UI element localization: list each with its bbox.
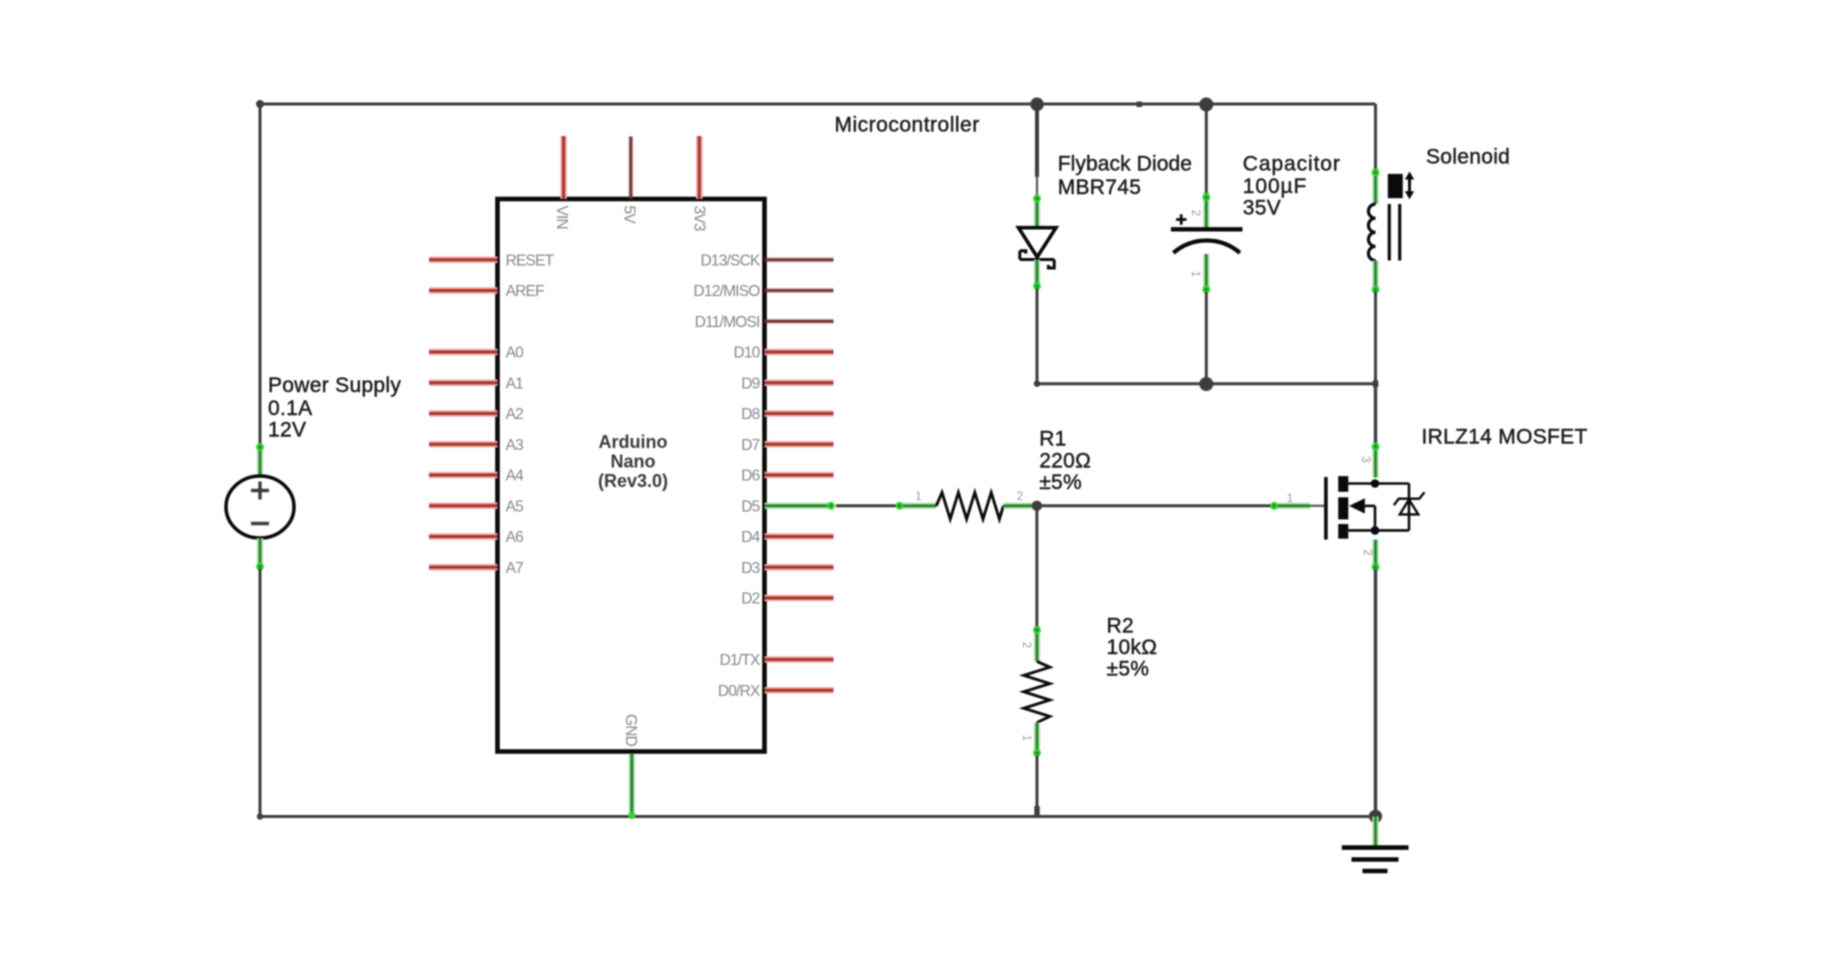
arduino pin A4 label [506, 468, 525, 485]
node junction flyback diode branch on top rail [1030, 98, 1044, 112]
wire bottom rail from power supply to ground junction [260, 815, 1376, 818]
node junction capacitor branch on top rail [1199, 98, 1213, 112]
arduino pin A6 label [506, 529, 524, 546]
capacitor C1 plus sign [1176, 214, 1187, 224]
arduino pin AREF (red leg) [429, 287, 498, 294]
wire from R1 junction down to R2 [1035, 506, 1038, 627]
node Q1 drain dot [1371, 479, 1380, 488]
arduino pin D8 label [741, 406, 759, 423]
arduino pin 3V3 label [691, 206, 708, 231]
transistor Q1 label [1422, 425, 1588, 448]
wire from R2 to bottom rail [1036, 756, 1039, 817]
node bendpoint on top rail [1137, 102, 1143, 108]
transistor Q1 gate bar [1324, 477, 1328, 540]
node junction capacitor at sub rail [1199, 377, 1213, 391]
flyback diode D1 label [1058, 152, 1192, 199]
arduino pin 5V (dark red leg) [628, 137, 633, 200]
microcontroller net label [835, 114, 980, 137]
svg-text:A7: A7 [506, 560, 524, 577]
diode D1 triangle [1019, 228, 1057, 257]
svg-text:0.1A: 0.1A [268, 397, 312, 420]
resistor R1 pin 1 (green) [896, 502, 937, 510]
svg-text:±5%: ±5% [1107, 658, 1150, 681]
svg-text:GND: GND [622, 714, 639, 747]
arduino pin D0/RX (leg) [765, 687, 834, 694]
arduino pin D6 (leg) [765, 472, 834, 479]
solenoid L1 core lines [1389, 204, 1399, 261]
resistor R2 pin 1 number [1020, 735, 1032, 741]
arduino pin D13/SCK label [700, 253, 760, 270]
capacitor C1 curved bottom plate [1173, 241, 1240, 253]
solenoid L1 pin 1 (green) [1372, 169, 1380, 205]
node bottom-left corner bendpoint [257, 813, 263, 819]
svg-text:2: 2 [1189, 210, 1201, 216]
svg-text:VIN: VIN [553, 206, 570, 229]
arduino pin RESET label [506, 253, 555, 270]
power supply label [268, 374, 401, 442]
transistor Q1 gate pin 1 (green) [1270, 502, 1310, 510]
node junction GND pin at bottom rail [628, 812, 635, 819]
svg-text:2: 2 [1361, 549, 1373, 555]
arduino pin VIN label [553, 206, 570, 229]
arduino pin D13/SCK (leg) [765, 257, 834, 262]
arduino pin GND (green connected leg) [629, 754, 635, 817]
arduino pin A3 (red leg) [429, 441, 498, 448]
arduino pin D5 (green connected leg) [765, 502, 835, 510]
arduino pin D1/TX (leg) [765, 656, 834, 663]
svg-text:MBR745: MBR745 [1058, 176, 1142, 199]
svg-text:2: 2 [1017, 491, 1023, 503]
ground pin (green) [1372, 817, 1378, 848]
svg-text:1: 1 [1189, 271, 1201, 277]
arduino pin A4 (red leg) [429, 472, 498, 479]
arduino pin A7 (red leg) [429, 564, 498, 571]
arduino pin D11/MOSI (leg) [765, 319, 834, 324]
node small junction diode at sub rail [1034, 381, 1040, 387]
arduino pin RESET (red leg) [429, 257, 498, 264]
transistor Q1 drain internal wire [1348, 482, 1409, 485]
wire from R1 junction to MOSFET gate [1037, 504, 1272, 507]
arduino pin A0 label [506, 345, 525, 362]
svg-text:10kΩ: 10kΩ [1107, 636, 1158, 659]
svg-text:D3: D3 [741, 560, 759, 577]
capacitor C1 top plate [1171, 227, 1243, 231]
ground symbol [1342, 848, 1409, 871]
svg-text:35V: 35V [1243, 197, 1281, 220]
diode D1 schottky cathode bar [1020, 251, 1054, 268]
arduino pin VIN (red leg) [560, 136, 567, 199]
arduino pin D9 label [741, 376, 759, 393]
arduino pin D0/RX label [718, 683, 761, 700]
node ground junction dot [1369, 810, 1382, 823]
transistor Q1 pin 2 number [1361, 549, 1373, 555]
arduino pin D6 label [741, 468, 759, 485]
svg-text:±5%: ±5% [1039, 471, 1082, 494]
transistor Q1 drain pin 3 (green) [1372, 443, 1380, 478]
svg-text:(Rev3.0): (Rev3.0) [598, 471, 668, 491]
svg-text:D13/SCK: D13/SCK [700, 253, 760, 270]
svg-text:AREF: AREF [506, 283, 544, 300]
arduino pin A5 (red leg) [429, 503, 498, 510]
solenoid L1 plunger arrow [1405, 172, 1414, 200]
wire top rail to solenoid branch corner [1374, 104, 1377, 169]
node Q1 source dot [1371, 526, 1380, 535]
transistor Q1 body arrow [1349, 498, 1375, 530]
svg-text:A1: A1 [506, 376, 524, 393]
arduino pin D9 (leg) [765, 380, 834, 387]
arduino pin A1 (red leg) [429, 380, 498, 387]
svg-text:5V: 5V [621, 206, 638, 225]
wire top rail from power supply to solenoid branch [260, 103, 1376, 106]
capacitor C1 pin 2 number [1189, 210, 1201, 216]
arduino pin D4 (leg) [765, 533, 834, 540]
svg-text:D0/RX: D0/RX [718, 683, 761, 700]
wire from D5 to R1 [836, 504, 899, 507]
arduino pin D3 (leg) [765, 564, 834, 571]
svg-text:D11/MOSI: D11/MOSI [695, 314, 760, 331]
resistor R2 pin 2 (green) [1033, 626, 1041, 661]
arduino pin D2 (leg) [765, 595, 834, 602]
resistor R1 pin 2 (green) [1003, 503, 1037, 509]
svg-text:D5: D5 [741, 499, 759, 516]
resistor R2 pin 2 number [1020, 642, 1032, 648]
node bendpoint sub rail right [1373, 381, 1379, 388]
svg-text:Power Supply: Power Supply [268, 374, 401, 397]
svg-text:A4: A4 [506, 468, 525, 485]
svg-text:Microcontroller: Microcontroller [835, 114, 980, 137]
arduino pin A2 label [506, 406, 524, 423]
svg-text:D9: D9 [741, 376, 759, 393]
svg-text:D6: D6 [741, 468, 759, 485]
wire gate from green to gate bar [1310, 505, 1325, 507]
wire from diode cathode to sub rail [1036, 289, 1039, 384]
arduino pin D8 (leg) [765, 410, 834, 417]
svg-text:A5: A5 [506, 499, 524, 516]
capacitor C1 label [1243, 153, 1341, 220]
arduino pin D1/TX label [720, 652, 761, 669]
svg-text:220Ω: 220Ω [1039, 449, 1091, 472]
capacitor C1 pin 1 (green) [1202, 254, 1210, 293]
svg-text:Nano: Nano [611, 452, 656, 472]
svg-text:A6: A6 [506, 529, 524, 546]
arduino pin A5 label [506, 499, 524, 516]
resistor R1 zigzag body [936, 493, 1003, 520]
solenoid L1 coil [1368, 204, 1375, 260]
svg-text:Arduino: Arduino [599, 432, 668, 452]
arduino pin D5 label [741, 499, 759, 516]
resistor R2 pin 1 (green) [1033, 723, 1041, 757]
wire left vertical from power supply to bottom rail [259, 569, 262, 817]
svg-text:RESET: RESET [506, 253, 555, 270]
arduino pin D12/MISO (leg) [765, 288, 834, 293]
svg-text:Solenoid: Solenoid [1426, 145, 1510, 168]
power supply V1 source circle [226, 476, 294, 538]
wire top rail junction down to diode [1035, 104, 1039, 197]
svg-text:D8: D8 [741, 406, 759, 423]
svg-text:IRLZ14 MOSFET: IRLZ14 MOSFET [1422, 425, 1588, 448]
svg-text:1: 1 [1287, 493, 1293, 505]
transistor Q1 body diode [1394, 484, 1425, 531]
arduino pin 3V3 (red leg) [696, 136, 703, 199]
diode D1 anode pin (green) [1033, 195, 1041, 229]
node bendpoint R2 at bottom rail [1034, 806, 1039, 818]
arduino pin A7 label [506, 560, 524, 577]
svg-text:R1: R1 [1039, 428, 1066, 451]
arduino pin D7 label [741, 437, 759, 454]
svg-text:D7: D7 [741, 437, 759, 454]
svg-text:12V: 12V [268, 419, 306, 442]
arduino pin D4 label [741, 529, 760, 546]
power supply V1 pin + (green) [256, 443, 264, 477]
svg-text:A2: A2 [506, 406, 524, 423]
svg-text:A3: A3 [506, 437, 524, 454]
resistor R2 value label [1107, 615, 1158, 681]
op-amp U1 Arduino Nano body rectangle [498, 199, 765, 752]
arduino pin D10 label [733, 345, 760, 362]
resistor R2 zigzag body [1024, 662, 1050, 723]
solenoid L1 label [1426, 145, 1510, 168]
arduino pin A3 label [506, 437, 524, 454]
arduino pin D10 (leg) [765, 349, 834, 356]
power supply V1 pin - (green) [256, 538, 264, 570]
svg-text:D10: D10 [733, 345, 760, 362]
transistor Q1 source internal wire [1348, 529, 1409, 532]
transistor Q1 channel bars [1338, 476, 1348, 539]
arduino pin D12/MISO label [694, 283, 761, 300]
svg-text:D2: D2 [741, 591, 759, 608]
arduino pin D7 (leg) [765, 441, 834, 448]
wire from sub rail down to MOSFET drain [1374, 384, 1377, 445]
svg-text:3V3: 3V3 [691, 206, 708, 231]
arduino pin D2 label [741, 591, 759, 608]
solenoid L1 plunger rect [1388, 174, 1403, 198]
arduino pin AREF label [506, 283, 544, 300]
capacitor C1 pin 1 number [1189, 271, 1201, 277]
resistor R1 pin 1 number [915, 491, 921, 503]
svg-text:D12/MISO: D12/MISO [694, 283, 761, 300]
svg-text:2: 2 [1020, 642, 1032, 648]
svg-text:A0: A0 [506, 345, 525, 362]
svg-text:100µF: 100µF [1243, 175, 1307, 198]
svg-text:Capacitor: Capacitor [1243, 153, 1341, 176]
svg-text:R2: R2 [1107, 615, 1134, 638]
wire left vertical from top-left corner down to power supply [259, 104, 262, 445]
arduino pin 5V label [621, 206, 638, 225]
wire top rail junction down to capacitor [1205, 104, 1208, 193]
diode D1 cathode pin (green) [1033, 260, 1041, 290]
arduino pin A2 (red leg) [429, 410, 498, 417]
wire from MOSFET source to ground junction [1374, 569, 1377, 817]
svg-text:1: 1 [1020, 735, 1032, 741]
wire sub rail (diode/cap/solenoid bottom) [1037, 382, 1376, 385]
svg-text:3: 3 [1359, 456, 1371, 462]
svg-text:D1/TX: D1/TX [720, 652, 761, 669]
svg-text:Flyback Diode: Flyback Diode [1058, 152, 1192, 175]
wire from solenoid to sub rail [1374, 292, 1377, 384]
transistor Q1 source pin 2 (green) [1372, 540, 1380, 571]
arduino U1 title text [598, 432, 668, 491]
arduino pin GND label [622, 714, 639, 747]
resistor R1 pin 2 number [1017, 491, 1023, 503]
arduino pin A0 (red leg) [429, 349, 498, 356]
svg-text:1: 1 [915, 491, 921, 503]
arduino pin D11/MOSI label [695, 314, 760, 331]
svg-text:D4: D4 [741, 529, 760, 546]
arduino pin A1 label [506, 376, 524, 393]
transistor Q1 pin 1 number [1287, 493, 1293, 505]
transistor Q1 pin 3 number [1359, 456, 1371, 462]
capacitor C1 pin 2 (green) [1202, 192, 1210, 229]
solenoid L1 pin 2 (green) [1372, 261, 1380, 294]
node top-left corner bendpoint [256, 100, 264, 108]
resistor R1 value label [1039, 428, 1091, 494]
arduino pin D3 label [741, 560, 759, 577]
node junction R1 / R2 / gate [1032, 501, 1042, 511]
arduino pin A6 (red leg) [429, 533, 498, 540]
wire from capacitor to sub rail [1205, 292, 1208, 384]
